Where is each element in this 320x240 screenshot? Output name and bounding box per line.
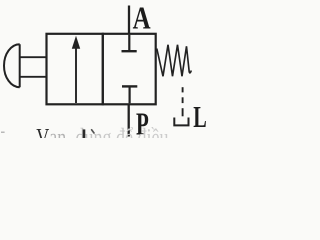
svg-text:A: A	[133, 0, 151, 36]
flow arrow in left box	[72, 36, 80, 103]
caption d ascender stem	[83, 129, 86, 138]
caption dash	[1, 132, 5, 133]
port line A	[128, 6, 130, 34]
blocked port T top (right box)	[122, 35, 137, 51]
caption u grave accent	[92, 130, 94, 133]
valve body left position box	[47, 34, 103, 105]
push button stem bottom line	[20, 76, 47, 78]
drain port cup symbol	[174, 118, 188, 126]
port line P	[128, 104, 130, 136]
push button stem top line	[20, 56, 47, 58]
push button actuator head	[4, 44, 20, 87]
valve body right position box	[103, 34, 156, 105]
svg-text:Van: Van	[36, 123, 66, 138]
blocked port T bottom (right box)	[122, 86, 137, 103]
return spring	[157, 45, 192, 77]
svg-text:dung để điều: dung để điều	[76, 123, 169, 138]
drain line L (dashed)	[182, 87, 184, 116]
svg-text:L: L	[193, 99, 207, 134]
